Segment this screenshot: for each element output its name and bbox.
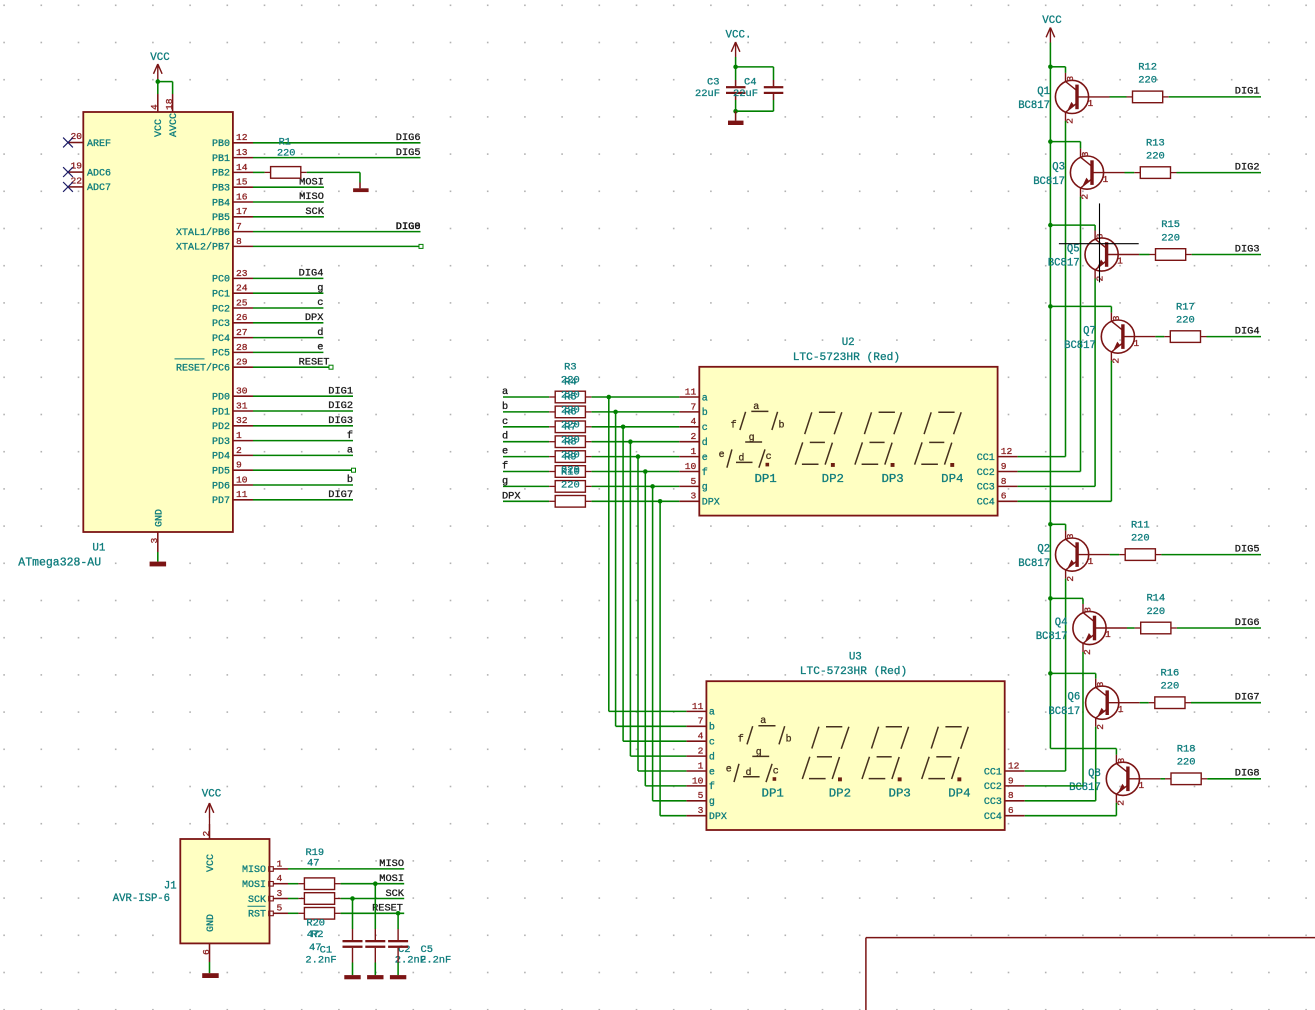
wire Q3 emitter to CC xyxy=(1080,197,1082,472)
wire VCC rail xyxy=(1049,67,1051,749)
ground at R1 xyxy=(353,183,369,193)
wire from PB/PC/PD pin row y=485.0 xyxy=(253,484,353,486)
svg-text:c: c xyxy=(317,297,323,309)
svg-text:CC2: CC2 xyxy=(977,468,995,479)
U2 reference and value text xyxy=(793,337,900,364)
wire R19 to MOSI label xyxy=(341,883,405,885)
wire rail to Q2 collector xyxy=(1050,524,1065,530)
transistor Q7 BC817 xyxy=(1064,313,1155,364)
svg-text:VCC: VCC xyxy=(1042,15,1062,27)
svg-text:1: 1 xyxy=(277,858,283,869)
svg-text:a: a xyxy=(347,445,353,457)
ground below C3 xyxy=(728,111,744,125)
svg-text:DIG7: DIG7 xyxy=(1235,692,1260,704)
svg-text:4: 4 xyxy=(149,104,160,110)
wire Q2 base to R11 xyxy=(1110,554,1120,556)
wire R6 to U2 pin d xyxy=(592,441,680,443)
junction e bus drop xyxy=(636,454,641,459)
svg-text:DIG3: DIG3 xyxy=(1235,243,1260,255)
svg-text:R16: R16 xyxy=(1161,667,1180,679)
wire from PB/PC/PD pin row y=231.6 xyxy=(253,231,421,233)
svg-text:5: 5 xyxy=(698,790,704,801)
wire U3 CC3 xyxy=(1025,800,1096,802)
U2 pin 5 g xyxy=(679,476,708,494)
net label f at segment resistor row xyxy=(502,461,508,473)
J1 pin 3 SCK xyxy=(248,888,288,906)
svg-text:DPX: DPX xyxy=(305,312,324,324)
net label DPX xyxy=(305,312,324,324)
wire e into resistor xyxy=(503,456,549,458)
svg-text:PD7: PD7 xyxy=(212,496,230,507)
cursor crosshair over Q5 xyxy=(1059,203,1139,282)
svg-text:DIG3: DIG3 xyxy=(328,415,353,427)
svg-text:a: a xyxy=(709,708,715,719)
svg-text:f: f xyxy=(709,781,715,793)
U1 pin 14 PB2 xyxy=(212,162,253,180)
U1 pin 23 PC0 xyxy=(212,268,253,286)
svg-text:R18: R18 xyxy=(1177,744,1196,756)
svg-text:220: 220 xyxy=(1176,314,1195,326)
svg-text:GND: GND xyxy=(206,914,217,932)
wire rail corner to Q8 collector xyxy=(1050,749,1116,755)
svg-text:Q6: Q6 xyxy=(1067,692,1080,704)
svg-text:Q1: Q1 xyxy=(1037,86,1050,98)
junction c bus drop xyxy=(621,425,626,430)
svg-text:PD2: PD2 xyxy=(212,422,230,433)
svg-text:DP3: DP3 xyxy=(889,786,911,800)
transistor Q8 BC817 xyxy=(1069,755,1160,806)
resistor R3 220 xyxy=(549,391,591,403)
svg-text:ATmega328-AU: ATmega328-AU xyxy=(18,557,101,570)
svg-text:CC2: CC2 xyxy=(984,782,1002,793)
svg-text:ADC6: ADC6 xyxy=(87,168,111,179)
svg-text:1: 1 xyxy=(236,430,242,441)
U2 digit 2 segment drawing xyxy=(795,412,842,467)
svg-text:2: 2 xyxy=(1080,194,1091,200)
ground at U1 xyxy=(150,562,167,567)
J1 pin 6 GND xyxy=(201,914,217,973)
svg-text:24: 24 xyxy=(236,283,248,294)
junction VCC rail for Q3 xyxy=(1048,139,1053,144)
U2 pin 8 CC3 xyxy=(977,476,1018,494)
wire U3 CC2 xyxy=(1025,785,1083,787)
U1 pin 24 PC1 xyxy=(212,283,253,301)
junction VCC rail for Q7 xyxy=(1048,304,1053,309)
svg-text:CC4: CC4 xyxy=(977,498,995,509)
svg-text:1: 1 xyxy=(1118,704,1124,715)
transistor Q3 BC817 xyxy=(1033,149,1124,200)
net label DIG1 xyxy=(328,385,353,397)
J1 pin 4 MOSI xyxy=(242,873,288,891)
U2 pin 6 CC4 xyxy=(977,491,1018,509)
wire rail to Q7 collector xyxy=(1050,306,1111,312)
U3 pin 9 CC2 xyxy=(984,775,1025,793)
svg-text:9: 9 xyxy=(1001,461,1007,472)
svg-text:47: 47 xyxy=(307,858,319,870)
svg-text:DP2: DP2 xyxy=(829,786,851,800)
svg-text:R5: R5 xyxy=(564,392,576,404)
resistor R2 47 xyxy=(298,908,340,920)
resistor R11 220 xyxy=(1119,519,1161,560)
wire U3 CC4 xyxy=(1025,815,1117,817)
svg-text:11: 11 xyxy=(692,701,704,712)
resistor R9 220 xyxy=(549,481,591,493)
svg-text:PB5: PB5 xyxy=(212,213,230,224)
svg-text:d: d xyxy=(709,751,715,763)
wire R7 to U2 pin e xyxy=(592,456,680,458)
svg-text:d: d xyxy=(502,431,508,443)
svg-text:19: 19 xyxy=(70,161,82,172)
junction VCC rail for Q4 xyxy=(1048,596,1053,601)
U2 pin 12 CC1 xyxy=(977,446,1018,464)
svg-text:PB3: PB3 xyxy=(212,184,230,195)
svg-text:AREF: AREF xyxy=(87,139,111,150)
U3 pin 6 CC4 xyxy=(984,805,1025,823)
svg-text:C4: C4 xyxy=(744,77,756,89)
U3 digit 3 segment drawing xyxy=(862,727,909,782)
dangling wire end xyxy=(329,365,333,369)
wire from PB/PC/PD pin row y=187.2 xyxy=(253,186,324,188)
svg-text:DIG6: DIG6 xyxy=(396,132,421,144)
svg-text:PC4: PC4 xyxy=(212,334,230,345)
svg-text:220: 220 xyxy=(277,149,295,160)
wire Q5 base to R15 xyxy=(1139,254,1149,256)
svg-text:g: g xyxy=(502,475,508,487)
svg-text:MOSI: MOSI xyxy=(379,873,404,885)
wire VCC to pin4/pin18 xyxy=(158,82,173,94)
net label b at segment resistor row xyxy=(502,401,508,413)
svg-text:AVCC: AVCC xyxy=(169,113,180,137)
svg-text:VCC: VCC xyxy=(154,119,165,137)
svg-text:2: 2 xyxy=(1095,724,1106,730)
svg-text:f: f xyxy=(347,430,353,442)
svg-text:7: 7 xyxy=(691,401,697,412)
resistor R14 220 xyxy=(1135,593,1177,634)
svg-text:PB2: PB2 xyxy=(212,169,230,180)
svg-text:2.2nF: 2.2nF xyxy=(420,955,451,967)
svg-text:BC817: BC817 xyxy=(1048,258,1080,270)
svg-text:e: e xyxy=(317,342,323,354)
net label DPX at segment resistor row xyxy=(502,490,521,502)
wire rail to Q1 collector xyxy=(1050,67,1065,73)
svg-text:2: 2 xyxy=(201,831,212,837)
svg-text:XTAL1/PB6: XTAL1/PB6 xyxy=(176,227,230,239)
net label RESET xyxy=(372,903,403,915)
wire R16 to label DIG7 xyxy=(1191,702,1261,704)
wire g into resistor xyxy=(503,485,549,487)
svg-text:BC817: BC817 xyxy=(1064,340,1096,352)
wire from PB/PC/PD pin row y=440.6 xyxy=(253,440,353,442)
net label DIG4 xyxy=(299,268,324,280)
svg-text:PD5: PD5 xyxy=(212,467,230,478)
svg-text:220: 220 xyxy=(1131,532,1150,544)
wire R12 to label DIG1 xyxy=(1169,96,1261,98)
svg-text:U1: U1 xyxy=(92,543,105,555)
svg-text:R13: R13 xyxy=(1146,137,1165,149)
svg-text:R17: R17 xyxy=(1176,301,1195,313)
net label DIG4 xyxy=(1235,325,1260,337)
svg-text:3: 3 xyxy=(1065,533,1076,539)
U2 pin 7 b xyxy=(679,401,708,419)
net label DIG7 xyxy=(328,489,353,501)
svg-text:R15: R15 xyxy=(1161,219,1180,231)
svg-text:c: c xyxy=(766,452,772,463)
svg-text:29: 29 xyxy=(236,357,248,368)
svg-text:PD1: PD1 xyxy=(212,407,230,418)
svg-text:17: 17 xyxy=(236,206,248,217)
capacitor C2 2.2nF xyxy=(365,884,426,980)
svg-text:PC5: PC5 xyxy=(212,349,230,360)
svg-text:DIG4: DIG4 xyxy=(299,268,324,280)
J1 reference and value text xyxy=(113,881,177,905)
resistor R1 220 xyxy=(265,138,307,179)
svg-text:32: 32 xyxy=(236,415,248,426)
svg-text:Q5: Q5 xyxy=(1067,244,1080,256)
net label DIG2 xyxy=(1235,161,1260,173)
wire Q3 base to R13 xyxy=(1125,172,1135,174)
capacitor C4 22uF xyxy=(733,77,783,112)
junction RESET / C5 xyxy=(396,911,401,916)
wire from PB/PC/PD pin row y=278.4 xyxy=(253,277,323,279)
resistor R16 220 xyxy=(1149,667,1191,708)
svg-text:9: 9 xyxy=(236,460,242,471)
svg-text:12: 12 xyxy=(236,132,248,143)
U1 pin 32 PD2 xyxy=(212,415,253,433)
wire a into resistor xyxy=(503,396,549,398)
wire from PB/PC/PD pin row y=216.8 xyxy=(253,216,324,218)
svg-text:27: 27 xyxy=(236,327,248,338)
wire R8 to U2 pin f xyxy=(592,471,680,473)
svg-text:2: 2 xyxy=(1116,800,1127,806)
svg-text:22uF: 22uF xyxy=(733,88,758,100)
svg-text:4: 4 xyxy=(691,416,697,427)
svg-text:RST: RST xyxy=(248,910,266,921)
junction g bus drop xyxy=(650,484,655,489)
svg-text:DP4: DP4 xyxy=(941,472,963,486)
U1 pin 13 PB1 xyxy=(212,147,253,165)
svg-text:c: c xyxy=(702,423,708,434)
svg-text:1: 1 xyxy=(1088,98,1094,109)
U3 pin 3 DPX xyxy=(686,805,727,823)
svg-text:R7: R7 xyxy=(564,422,576,434)
U1 pin 20 AREF (no-connect) xyxy=(63,131,111,150)
net label c at segment resistor row xyxy=(502,416,508,428)
U3 digit 4 segment drawing xyxy=(922,727,969,782)
svg-text:16: 16 xyxy=(236,191,248,202)
svg-text:DP3: DP3 xyxy=(881,472,903,486)
wire from PB/PC/PD pin row y=308.0 xyxy=(253,307,323,309)
svg-text:PC1: PC1 xyxy=(212,290,230,301)
wire drop DPX to U3 xyxy=(660,501,686,815)
svg-text:VCC: VCC xyxy=(206,854,217,872)
svg-text:RESET: RESET xyxy=(372,903,403,915)
U1 pin 14 PB2 wire to R1 xyxy=(253,171,265,173)
wire R17 to label DIG4 xyxy=(1207,336,1262,338)
wire from PB/PC/PD pin row y=367.2 xyxy=(253,366,330,368)
wire R3 to U2 pin a xyxy=(592,396,680,398)
wire d into resistor xyxy=(503,441,549,443)
svg-text:7: 7 xyxy=(236,221,242,232)
power VCC at U1 xyxy=(150,52,170,82)
ground at J1 xyxy=(202,973,219,978)
svg-text:Q4: Q4 xyxy=(1055,617,1068,629)
svg-text:SCK: SCK xyxy=(248,895,266,906)
svg-text:220: 220 xyxy=(1161,681,1180,693)
wire from PB/PC/PD pin row y=396.2 xyxy=(253,395,353,397)
net label SCK xyxy=(385,888,404,900)
net label DIG8 xyxy=(1235,768,1260,780)
net label g at segment resistor row xyxy=(502,475,508,487)
U1 pin 27 PC4 xyxy=(212,327,253,345)
wire drop e to U3 xyxy=(638,457,686,771)
junction SCK / C1 xyxy=(350,896,355,901)
svg-text:3: 3 xyxy=(1116,758,1127,764)
svg-text:d: d xyxy=(702,437,708,449)
U1 pin 16 PB4 xyxy=(212,191,253,209)
net label e xyxy=(317,342,323,354)
svg-text:BC817: BC817 xyxy=(1036,631,1068,643)
U3 pin 12 CC1 xyxy=(984,760,1025,778)
svg-text:Q7: Q7 xyxy=(1083,326,1096,338)
svg-text:g: g xyxy=(317,282,323,294)
svg-text:3: 3 xyxy=(1080,151,1091,157)
svg-text:a: a xyxy=(702,393,708,404)
svg-text:DP4: DP4 xyxy=(948,786,970,800)
dangling wire end xyxy=(419,244,423,248)
wire DPX into resistor xyxy=(503,500,549,502)
wire from PB/PC/PD pin row y=337.6 xyxy=(253,337,323,339)
svg-text:R20: R20 xyxy=(306,918,325,930)
wire from PB/PC/PD pin row y=322.8 xyxy=(253,322,323,324)
wire rail to Q5 collector xyxy=(1050,225,1095,230)
svg-text:25: 25 xyxy=(236,297,248,308)
svg-text:11: 11 xyxy=(685,386,697,397)
svg-text:e: e xyxy=(502,446,508,458)
svg-text:9: 9 xyxy=(1008,775,1014,786)
svg-text:BC817: BC817 xyxy=(1018,100,1050,112)
resistor R10 220 xyxy=(549,496,591,508)
wire Q8 emitter to CC xyxy=(1115,803,1117,816)
wire R4 to U2 pin b xyxy=(592,411,680,413)
svg-text:220: 220 xyxy=(1177,757,1196,769)
wire Q4 base to R14 xyxy=(1127,627,1135,629)
wire from PB/PC/PD pin row y=157.6 xyxy=(253,157,421,159)
wire U2 CC3 xyxy=(1018,485,1096,487)
resistor R5 220 xyxy=(549,421,591,433)
net label a at segment resistor row xyxy=(502,386,508,398)
svg-text:R9: R9 xyxy=(564,452,576,464)
svg-text:MOSI: MOSI xyxy=(299,176,324,188)
resistor R18 220 xyxy=(1165,744,1207,785)
wire from PB/PC/PD pin row y=455.4 xyxy=(253,454,353,456)
svg-text:CC3: CC3 xyxy=(977,483,995,494)
svg-text:c: c xyxy=(709,738,715,749)
svg-text:31: 31 xyxy=(236,400,248,411)
svg-text:3: 3 xyxy=(277,888,283,899)
svg-text:7: 7 xyxy=(698,716,704,727)
wire Q5 emitter to CC xyxy=(1094,279,1096,487)
svg-text:3: 3 xyxy=(1095,681,1106,687)
svg-text:2: 2 xyxy=(236,445,242,456)
svg-text:DIG2: DIG2 xyxy=(328,400,353,412)
U1 pin 26 PC3 xyxy=(212,312,253,330)
svg-text:8: 8 xyxy=(1008,790,1014,801)
svg-text:U3: U3 xyxy=(849,651,862,663)
wire drop f to U3 xyxy=(645,472,686,786)
U2 pin 2 d xyxy=(679,431,708,449)
svg-text:BC817: BC817 xyxy=(1069,782,1101,794)
U3 pin 7 b xyxy=(686,716,715,734)
svg-text:R8: R8 xyxy=(564,437,576,449)
junction VCC rail for Q5 xyxy=(1048,223,1053,228)
svg-text:DP1: DP1 xyxy=(762,786,784,800)
svg-text:CC4: CC4 xyxy=(984,812,1002,823)
svg-text:1: 1 xyxy=(1105,629,1111,640)
U1 pin 15 PB3 xyxy=(212,177,253,195)
U1 pin 7 XTAL1/PB6 xyxy=(176,221,253,239)
svg-text:f: f xyxy=(731,419,737,431)
svg-text:220: 220 xyxy=(1138,75,1157,87)
U1 pin 8 XTAL2/PB7 xyxy=(176,236,253,254)
U2 pin 4 c xyxy=(679,416,708,434)
net label f xyxy=(347,430,353,442)
junction f bus drop xyxy=(643,469,648,474)
U1 pin 25 PC2 xyxy=(212,297,253,315)
svg-text:MISO: MISO xyxy=(299,191,324,203)
svg-text:b: b xyxy=(347,474,353,486)
junction MOSI / C2 xyxy=(373,881,378,886)
svg-text:R4: R4 xyxy=(564,377,576,389)
svg-text:10: 10 xyxy=(692,775,704,786)
svg-text:8: 8 xyxy=(236,236,242,247)
resistor stack text R20/R2 values xyxy=(306,918,325,955)
svg-text:10: 10 xyxy=(685,461,697,472)
junction a bus drop xyxy=(607,395,612,400)
wire U2 CC1 xyxy=(1018,456,1066,458)
svg-text:MISO: MISO xyxy=(379,858,404,870)
wire J1 MOSI to R19 xyxy=(288,883,298,885)
U1 pin 9 PD5 xyxy=(212,460,253,478)
U1 pin 10 PD6 xyxy=(212,474,253,492)
svg-text:5: 5 xyxy=(277,903,283,914)
svg-text:g: g xyxy=(702,483,708,494)
svg-text:VCC: VCC xyxy=(202,789,222,801)
wire b into resistor xyxy=(503,411,549,413)
junction VCC rail for Q1 xyxy=(1048,65,1053,70)
junction above C3 xyxy=(733,65,738,70)
net label DIG6 xyxy=(1235,617,1260,629)
power VCC at transistor rail xyxy=(1042,15,1062,67)
wire U3 CC1 xyxy=(1025,770,1066,772)
svg-text:DIG1: DIG1 xyxy=(1235,86,1260,98)
wire R11 to label DIG5 xyxy=(1161,554,1261,556)
net label RESET xyxy=(299,356,330,368)
wire R5 to U2 pin c xyxy=(592,426,680,428)
connector J1 AVR-ISP-6 body xyxy=(180,839,269,943)
U2 pin 11 a xyxy=(679,386,708,404)
net label MOSI xyxy=(379,873,404,885)
wire R14 to label DIG6 xyxy=(1177,627,1261,629)
wire Q6 emitter to CC xyxy=(1095,727,1097,801)
svg-text:Q3: Q3 xyxy=(1052,162,1065,174)
U1 pin 30 PD0 xyxy=(212,386,253,404)
resistor R20 47 xyxy=(298,893,340,905)
resistor R6 220 xyxy=(549,436,591,448)
svg-text:220: 220 xyxy=(1161,232,1180,244)
svg-text:DP1: DP1 xyxy=(754,472,776,486)
wire Q7 emitter to CC xyxy=(1110,361,1112,502)
svg-text:3: 3 xyxy=(1111,315,1122,321)
